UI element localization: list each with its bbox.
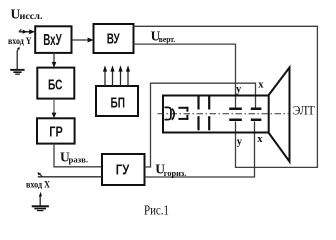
svg-text:разв.: разв. bbox=[69, 155, 89, 165]
ground (вход Y) bbox=[10, 52, 24, 75]
svg-text:гориз.: гориз. bbox=[164, 168, 187, 178]
label Uиссл. bbox=[11, 6, 43, 21]
wire ГР down then right to ГУ bbox=[54, 144, 102, 167]
svg-text:верт.: верт. bbox=[159, 34, 176, 44]
wire вход Y input line bbox=[19, 29, 35, 34]
block ГР bbox=[37, 118, 75, 143]
svg-text:y: y bbox=[237, 136, 243, 147]
svg-text:вход Y: вход Y bbox=[8, 37, 32, 47]
svg-text:иссл.: иссл. bbox=[20, 11, 43, 21]
block ВхУ bbox=[35, 26, 71, 53]
svg-text:ГР: ГР bbox=[49, 124, 63, 141]
svg-text:y: y bbox=[236, 84, 242, 95]
wire БС down to ГР with arrow bbox=[52, 99, 57, 119]
wire ГУ output B (Uгориз) to lower x-plate bbox=[145, 122, 255, 178]
svg-text:ГУ: ГУ bbox=[116, 162, 130, 179]
y deflection plates bbox=[229, 108, 242, 122]
cathode arc ) bbox=[172, 109, 174, 120]
svg-text:Рис.1: Рис.1 bbox=[144, 202, 169, 217]
ground (вход X) bbox=[32, 192, 49, 211]
svg-text:вход X: вход X bbox=[26, 180, 50, 190]
label Uгориз. bbox=[155, 162, 186, 178]
anode grid bar 1 bbox=[197, 97, 199, 131]
wire ГУ output A: right, up, across top, down to upper x-plate bbox=[145, 83, 256, 167]
svg-text:БП: БП bbox=[111, 95, 126, 112]
block ВУ bbox=[94, 24, 134, 53]
wire ВхУ down to БС with arrow bbox=[52, 53, 57, 68]
svg-text:x: x bbox=[257, 134, 263, 145]
wire ВУ lower output to upper y-plate bbox=[134, 44, 236, 107]
CRT tube body bbox=[163, 96, 269, 133]
anode grid bar 2 bbox=[208, 97, 210, 131]
svg-text:БС: БС bbox=[48, 76, 63, 93]
wire Uверт upper: ВУ right to far right then down and around to lower y-plate bbox=[134, 26, 318, 167]
label Uверт bbox=[151, 29, 176, 44]
svg-text:ВхУ: ВхУ bbox=[43, 32, 62, 49]
wire ВхУ to ВУ with arrow bbox=[72, 38, 94, 43]
power arrows above БП bbox=[103, 65, 130, 86]
block БС bbox=[37, 68, 74, 99]
svg-text:ВУ: ВУ bbox=[107, 30, 120, 47]
terminal arrow (Y ground tap) bbox=[17, 47, 20, 52]
focusing electrode bbox=[178, 107, 188, 120]
block ГУ bbox=[102, 154, 145, 185]
svg-text:x: x bbox=[258, 80, 264, 91]
svg-text:ЭЛТ: ЭЛТ bbox=[293, 102, 315, 117]
axis dash-dot line bbox=[158, 113, 290, 115]
x deflection plates bbox=[251, 108, 262, 122]
label Uразв. bbox=[60, 149, 88, 164]
block БП bbox=[96, 86, 138, 116]
CRT funnel and screen bbox=[269, 68, 290, 162]
wire вход X input line to ГУ bbox=[37, 172, 102, 177]
cathode Э bbox=[165, 107, 171, 119]
